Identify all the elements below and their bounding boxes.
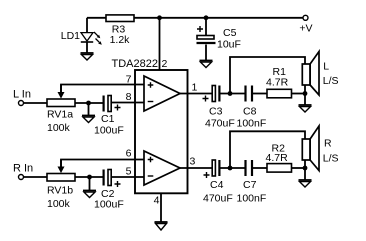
ground (below C5) xyxy=(200,61,213,68)
terminal R In xyxy=(13,163,33,180)
wire RV1b to C2 xyxy=(75,176,104,178)
svg-text:100nF: 100nF xyxy=(237,117,267,129)
svg-text:2: 2 xyxy=(162,58,168,70)
LED emission arrows xyxy=(94,32,102,45)
resistor R3 xyxy=(106,15,134,46)
resistor R2 xyxy=(266,142,292,172)
pin 3 wire xyxy=(180,167,213,169)
svg-text:C5: C5 xyxy=(223,27,237,39)
resistor R1 xyxy=(266,66,292,98)
pin 7 wire (wiper RV1a to +) xyxy=(61,85,144,94)
junction C4/loop xyxy=(228,166,233,171)
wire loop to L speaker xyxy=(230,57,305,94)
wire C4 to C7 xyxy=(220,167,244,169)
svg-text:1: 1 xyxy=(192,82,198,94)
svg-text:100uF: 100uF xyxy=(94,125,124,137)
svg-text:470uF: 470uF xyxy=(203,192,233,204)
wire R2 to speaker node xyxy=(292,167,306,169)
svg-text:C4: C4 xyxy=(210,179,224,191)
potentiometer RV1a xyxy=(47,85,75,135)
wire R1 to speaker node xyxy=(292,93,306,95)
junction C3/loop xyxy=(228,91,233,96)
svg-text:C7: C7 xyxy=(243,179,257,191)
wire C3 to C8 xyxy=(220,93,244,95)
svg-text:100nF: 100nF xyxy=(237,192,267,204)
wire C8 to R1 xyxy=(253,93,267,95)
svg-text:TDA2822: TDA2822 xyxy=(112,58,158,70)
terminal +V xyxy=(299,15,312,34)
capacitor C1 xyxy=(94,96,124,137)
svg-text:4: 4 xyxy=(154,195,160,207)
junction L speaker node xyxy=(303,91,308,96)
svg-text:100k: 100k xyxy=(47,122,71,134)
svg-text:6: 6 xyxy=(126,148,132,160)
pin 8 wire xyxy=(112,102,145,104)
svg-text:4.7R: 4.7R xyxy=(266,77,289,89)
op-amp U1a xyxy=(144,76,180,111)
terminal L In xyxy=(13,89,31,106)
junction RV1b/C2/ground xyxy=(87,175,92,180)
svg-text:R In: R In xyxy=(13,163,33,175)
svg-text:L: L xyxy=(323,61,329,73)
capacitor C3 xyxy=(203,86,235,130)
wire RV1a to C1 xyxy=(75,102,104,104)
potentiometer RV1b xyxy=(47,160,75,211)
svg-text:L/S: L/S xyxy=(323,152,339,164)
ground (below R speaker node) xyxy=(299,168,312,187)
svg-text:4.7R: 4.7R xyxy=(266,152,289,164)
svg-text:1.2k: 1.2k xyxy=(110,34,131,46)
wire C7 to R2 xyxy=(253,167,267,169)
svg-text:L/S: L/S xyxy=(323,75,339,87)
svg-text:RV1b: RV1b xyxy=(47,185,73,197)
pin 2 wire xyxy=(159,18,161,70)
speaker L/S right xyxy=(302,126,338,171)
junction R speaker node xyxy=(303,166,308,171)
svg-text:7: 7 xyxy=(126,74,132,86)
wire top rail R3 to +V xyxy=(134,17,303,19)
svg-text:L In: L In xyxy=(13,89,31,101)
pin 5 wire xyxy=(112,176,145,178)
svg-text:100k: 100k xyxy=(47,198,71,210)
capacitor C2 xyxy=(94,170,124,211)
capacitor C8 xyxy=(237,86,267,130)
svg-text:10uF: 10uF xyxy=(217,38,241,50)
pin 1 wire xyxy=(180,93,213,95)
svg-text:+V: +V xyxy=(299,23,312,35)
svg-text:470uF: 470uF xyxy=(205,117,235,129)
ground (below pin 4) xyxy=(155,222,168,230)
speaker L/S left xyxy=(302,52,338,96)
ground (below L speaker node) xyxy=(299,94,312,113)
svg-text:5: 5 xyxy=(126,166,132,178)
svg-text:R: R xyxy=(324,138,332,150)
svg-text:100uF: 100uF xyxy=(94,199,124,211)
ground (below RV1b junction) xyxy=(83,177,96,198)
svg-text:C1: C1 xyxy=(101,113,115,125)
wire loop to R speaker xyxy=(230,131,305,168)
svg-text:8: 8 xyxy=(126,91,132,103)
svg-text:LD1: LD1 xyxy=(61,30,80,42)
LED LD1 xyxy=(61,18,93,53)
junction C5 top rail xyxy=(204,15,209,20)
capacitor C7 xyxy=(237,160,267,204)
ground (below RV1a junction) xyxy=(82,103,95,123)
ground (below LD1) xyxy=(81,53,94,60)
svg-text:C8: C8 xyxy=(243,106,257,118)
junction pin2 top rail xyxy=(157,15,162,20)
op-amp U1b xyxy=(144,151,180,185)
capacitor C4 xyxy=(203,160,233,204)
svg-text:C3: C3 xyxy=(209,106,223,118)
wire L In to RV1a xyxy=(24,102,47,104)
pin 4 wire xyxy=(160,194,162,223)
svg-text:3: 3 xyxy=(190,156,196,168)
wire R In to RV1b xyxy=(24,176,47,178)
capacitor C5 xyxy=(197,18,241,61)
svg-text:RV1a: RV1a xyxy=(47,109,73,121)
wire top rail LED to R3 xyxy=(87,17,106,19)
junction RV1a/C1/ground xyxy=(86,101,91,106)
pin 6 wire (wiper RV1b to +) xyxy=(61,160,144,169)
IC U1 TDA2822 box xyxy=(112,58,188,193)
